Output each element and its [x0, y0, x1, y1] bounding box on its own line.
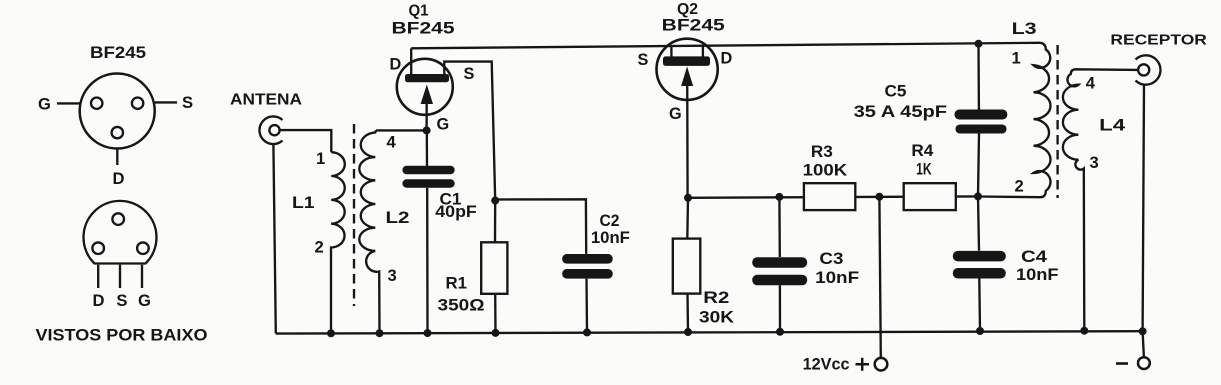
S lead line — [155, 101, 177, 103]
C1 bottom plate — [402, 179, 454, 187]
wire C3 junction down — [778, 197, 781, 257]
package lead D — [97, 265, 99, 288]
svg-text:10nF: 10nF — [1016, 266, 1059, 284]
resistor R1 — [438, 201, 508, 333]
node rail R2 junction — [684, 328, 692, 336]
wire junction to C2 — [495, 199, 586, 254]
package lead G — [141, 265, 143, 288]
capacitor C2 — [562, 212, 630, 332]
svg-text:3: 3 — [1090, 153, 1099, 172]
receptor connector outer arc — [1136, 55, 1161, 84]
svg-text:BF245: BF245 — [90, 43, 146, 62]
antenna connector outer arc — [259, 116, 282, 144]
inductor L3 — [978, 43, 1051, 197]
svg-text:C4: C4 — [1021, 248, 1047, 266]
C5 bottom plate — [956, 125, 1007, 134]
package lead S — [119, 265, 121, 288]
label + — [856, 358, 870, 371]
wire receptor drop — [1143, 85, 1144, 332]
C5 top plate — [955, 110, 1008, 120]
bottom rail wire — [276, 331, 1143, 333]
Q1 channel bar — [405, 74, 449, 82]
node rail C2 junction — [583, 328, 591, 336]
svg-text:2: 2 — [315, 238, 324, 257]
minus terminal circle — [1138, 357, 1150, 369]
transistor case top view circle — [80, 74, 155, 149]
svg-text:L1: L1 — [292, 193, 315, 212]
svg-text:VISTOS POR BAIXO: VISTOS POR BAIXO — [36, 326, 208, 345]
Q2 channel bar — [663, 56, 710, 66]
C3 top plate — [752, 257, 807, 268]
wire 12V feed down — [879, 197, 880, 358]
R2 body — [673, 239, 701, 294]
wire rail down to C5 — [977, 44, 980, 110]
svg-text:100K: 100K — [803, 162, 848, 180]
svg-text:D: D — [390, 56, 402, 74]
svg-text:12Vcc: 12Vcc — [803, 356, 850, 374]
R1 lead top — [494, 201, 497, 243]
wire minus terminal stub — [1143, 331, 1144, 357]
R3 body — [804, 183, 855, 210]
negative terminal — [1116, 331, 1150, 369]
C4 top plate — [953, 251, 1006, 262]
G lead line — [57, 102, 80, 104]
wire bias row — [688, 196, 978, 197]
svg-text:RECEPTOR: RECEPTOR — [1110, 32, 1207, 49]
C4 bottom plate — [953, 268, 1006, 279]
svg-text:S: S — [116, 291, 127, 310]
svg-text:1K: 1K — [916, 161, 932, 179]
wire junction down to C4 — [978, 196, 979, 250]
node Q1 gate junction — [423, 126, 431, 134]
Q2 source stub to rail — [670, 46, 672, 57]
transistor Q2 — [638, 1, 733, 198]
node S/R1 junction — [491, 197, 499, 205]
wire antenna ground drop — [273, 144, 275, 334]
Q2 gate arrow — [681, 67, 693, 87]
Q2 gate line — [686, 75, 689, 198]
package hole right — [137, 242, 149, 254]
svg-text:G: G — [38, 95, 51, 114]
svg-text:S: S — [464, 65, 475, 83]
C2 top plate — [562, 254, 613, 264]
svg-text:C5: C5 — [885, 83, 907, 101]
antenna connector inner circle — [269, 125, 279, 135]
svg-text:D: D — [93, 291, 105, 310]
capacitor C1 — [402, 166, 476, 333]
resistor R4 — [904, 142, 956, 210]
svg-text:ANTENA: ANTENA — [230, 92, 302, 109]
svg-text:G: G — [669, 105, 682, 123]
wire C5 down to junction — [978, 134, 979, 197]
inductor L2 — [359, 130, 379, 333]
Q2 circle — [657, 39, 718, 100]
svg-text:BF245: BF245 — [392, 20, 455, 38]
node rail C3 junction — [776, 328, 784, 336]
C3 bottom plate — [752, 275, 807, 286]
C2 bottom plate — [562, 269, 613, 279]
resistor R2 — [673, 198, 734, 332]
Q2 drain stub to rail — [702, 45, 704, 57]
svg-text:R4: R4 — [911, 142, 933, 160]
wire gate node down to C1 — [426, 130, 429, 166]
package bottom view outline — [84, 201, 157, 264]
svg-text:10nF: 10nF — [815, 269, 859, 287]
receptor connector inner circle — [1138, 64, 1149, 75]
label minus — [1116, 362, 1128, 365]
node rail L4 junction — [1080, 327, 1088, 335]
Q1 gate line — [425, 92, 427, 130]
top rail wire Q1 D to L3 — [411, 43, 1040, 49]
svg-text:3: 3 — [388, 266, 397, 285]
Q1 gate arrow — [421, 85, 433, 105]
svg-text:2: 2 — [1015, 177, 1024, 196]
package hole top — [112, 213, 124, 225]
inductor L1 — [331, 152, 345, 333]
svg-text:30K: 30K — [699, 309, 734, 327]
node Q2 gate junction — [684, 194, 692, 202]
node R4 right junction — [974, 192, 982, 200]
wire C1 down to rail — [426, 188, 429, 333]
Q1 circle — [397, 59, 453, 115]
svg-text:4: 4 — [387, 133, 397, 152]
svg-text:1: 1 — [316, 149, 325, 168]
svg-text:S: S — [182, 93, 193, 112]
pin S hole — [132, 98, 143, 109]
wire antenna to L1 — [280, 130, 332, 152]
transformer core dashed line L3-L4 — [1056, 45, 1058, 198]
svg-text:R1: R1 — [446, 275, 468, 293]
resistor R3 — [803, 143, 856, 210]
node rail C4 junction — [976, 327, 984, 335]
svg-text:L4: L4 — [1099, 117, 1125, 135]
12Vcc terminal — [803, 356, 888, 374]
svg-text:G: G — [138, 291, 151, 310]
C1 top plate — [402, 166, 454, 174]
svg-text:4: 4 — [1086, 74, 1096, 93]
node rail receptor junction — [1139, 327, 1147, 335]
node rail R1 junction — [492, 329, 500, 337]
svg-text:Q1: Q1 — [409, 3, 429, 20]
package hole left — [92, 242, 104, 254]
svg-text:10nF: 10nF — [591, 229, 630, 247]
svg-text:L2: L2 — [386, 208, 410, 227]
svg-text:C2: C2 — [600, 212, 620, 230]
node top rail junction — [975, 40, 983, 48]
svg-text:BF245: BF245 — [662, 17, 725, 35]
pin D hole — [112, 127, 123, 138]
D lead line — [116, 149, 118, 165]
svg-text:C3: C3 — [819, 250, 843, 268]
capacitor C3 — [752, 250, 859, 332]
node rail L2 junction — [376, 329, 384, 337]
capacitor C5 — [854, 83, 1008, 197]
transformer core dashed line L1-L2 — [353, 124, 355, 306]
wire C2 down to rail — [585, 279, 588, 333]
wire L2 top to Q1 gate node — [376, 129, 427, 131]
svg-text:L3: L3 — [1012, 20, 1037, 38]
R2 lead bottom — [686, 294, 689, 332]
Q1 source lead — [444, 62, 495, 201]
svg-text:R2: R2 — [703, 289, 729, 307]
svg-text:D: D — [721, 50, 733, 68]
svg-text:S: S — [638, 51, 649, 69]
wire C4 down to rail — [978, 279, 981, 332]
R4 body — [904, 183, 956, 210]
svg-text:R3: R3 — [811, 143, 833, 161]
svg-text:G: G — [437, 116, 450, 134]
svg-text:D: D — [113, 169, 125, 188]
pin G hole — [91, 98, 102, 109]
transistor Q1 — [390, 3, 496, 201]
R1 body — [481, 242, 507, 293]
R1 lead bottom — [494, 294, 497, 333]
inductor L4 — [1063, 69, 1138, 330]
node rail C1 junction — [424, 329, 432, 337]
svg-text:Q2: Q2 — [677, 1, 698, 18]
svg-text:350Ω: 350Ω — [438, 297, 485, 315]
node R3/R4 junction — [875, 193, 883, 201]
capacitor C4 — [953, 248, 1059, 331]
node rail L1 junction — [327, 329, 335, 337]
wire C3 down to rail — [779, 285, 781, 332]
node C3 junction — [775, 193, 783, 201]
12V terminal circle — [875, 358, 888, 371]
Q1 drain lead up — [410, 48, 412, 75]
R2 lead top — [686, 198, 689, 239]
svg-text:35 A 45pF: 35 A 45pF — [854, 103, 948, 121]
svg-text:40pF: 40pF — [435, 203, 477, 221]
svg-text:1: 1 — [1012, 49, 1021, 68]
